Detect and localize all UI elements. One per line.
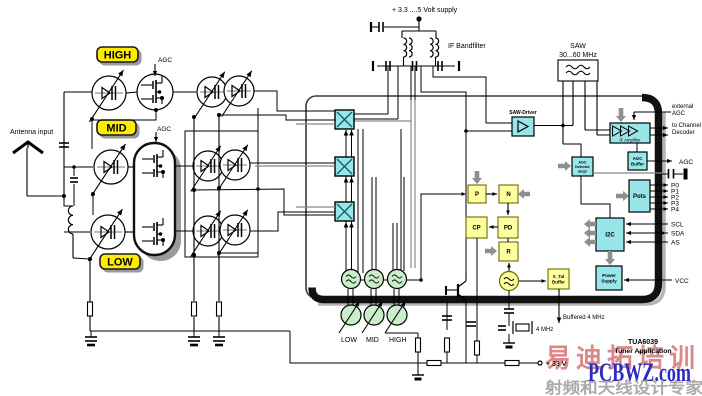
svg-text:Decoder: Decoder bbox=[672, 130, 695, 136]
svg-text:+ 3.3 ....5 Volt supply: + 3.3 ....5 Volt supply bbox=[392, 7, 458, 14]
svg-text:Buffer: Buffer bbox=[631, 161, 644, 166]
svg-text:P: P bbox=[475, 192, 479, 198]
svg-text:SDA: SDA bbox=[671, 231, 685, 238]
svg-text:MID: MID bbox=[366, 337, 379, 344]
svg-text:射频和天线设计专家: 射频和天线设计专家 bbox=[544, 378, 702, 396]
svg-text:Supply: Supply bbox=[601, 279, 617, 284]
svg-text:AGC: AGC bbox=[633, 156, 644, 161]
svg-text:SAW: SAW bbox=[570, 43, 586, 50]
svg-text:LOW: LOW bbox=[107, 257, 133, 269]
svg-text:SCL: SCL bbox=[671, 222, 684, 229]
svg-text:R: R bbox=[506, 249, 511, 255]
svg-text:IF Amplifier: IF Amplifier bbox=[620, 138, 642, 143]
svg-text:AGC: AGC bbox=[679, 159, 693, 166]
svg-text:+ 33 V: + 33 V bbox=[546, 361, 567, 368]
svg-text:Buffered 4 MHz: Buffered 4 MHz bbox=[563, 315, 605, 321]
svg-text:HIGH: HIGH bbox=[389, 337, 407, 344]
svg-text:Buffer: Buffer bbox=[552, 279, 565, 284]
svg-text:LOW: LOW bbox=[341, 337, 357, 344]
svg-text:AS: AS bbox=[671, 240, 680, 247]
svg-text:N: N bbox=[506, 192, 510, 198]
svg-text:AGC: AGC bbox=[157, 126, 171, 133]
svg-text:VCC: VCC bbox=[675, 278, 689, 285]
svg-text:PD: PD bbox=[504, 225, 513, 231]
svg-text:MID: MID bbox=[106, 123, 126, 135]
svg-text:Tuner Application: Tuner Application bbox=[614, 348, 671, 355]
svg-text:SAW-Driver: SAW-Driver bbox=[509, 110, 536, 116]
svg-text:P4: P4 bbox=[671, 207, 679, 214]
svg-text:ampl: ampl bbox=[578, 169, 586, 173]
svg-text:HIGH: HIGH bbox=[104, 50, 132, 62]
svg-text:Power: Power bbox=[602, 273, 616, 278]
svg-text:IF Bandfilter: IF Bandfilter bbox=[448, 43, 486, 50]
svg-text:AGC: AGC bbox=[672, 111, 686, 117]
svg-text:to Channel: to Channel bbox=[672, 123, 701, 129]
svg-text:Pots: Pots bbox=[633, 194, 647, 200]
svg-text:30...60 MHz: 30...60 MHz bbox=[559, 52, 597, 59]
svg-text:Antenna input: Antenna input bbox=[10, 129, 53, 136]
svg-text:X_Tal: X_Tal bbox=[553, 274, 564, 279]
svg-text:4 MHz: 4 MHz bbox=[536, 327, 553, 333]
svg-text:AGC: AGC bbox=[158, 57, 172, 64]
svg-text:TUA6039: TUA6039 bbox=[628, 339, 658, 346]
svg-text:I2C: I2C bbox=[605, 232, 615, 238]
svg-text:Detector: Detector bbox=[575, 165, 590, 169]
svg-text:AGC: AGC bbox=[579, 160, 587, 164]
svg-text:external: external bbox=[672, 104, 693, 110]
svg-text:CP: CP bbox=[472, 225, 480, 231]
